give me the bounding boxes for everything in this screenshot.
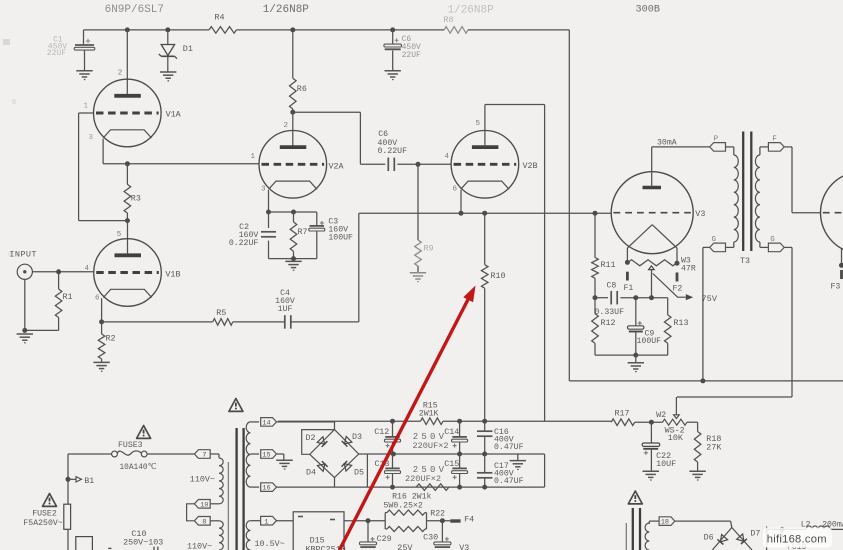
- svg-text:5: 5: [117, 231, 122, 239]
- svg-text:16: 16: [262, 485, 270, 493]
- svg-text:1: 1: [84, 103, 89, 111]
- svg-text:3: 3: [261, 186, 266, 194]
- svg-text:F1: F1: [624, 284, 634, 293]
- svg-text:15: 15: [262, 452, 270, 460]
- svg-text:0.22UF: 0.22UF: [378, 147, 408, 156]
- svg-text:6: 6: [453, 186, 458, 194]
- svg-text:2W1K: 2W1K: [419, 410, 439, 419]
- svg-text:hifi168.com: hifi168.com: [767, 534, 827, 546]
- svg-text:25V: 25V: [397, 543, 412, 550]
- svg-text:F4: F4: [464, 515, 474, 525]
- svg-text:C6: C6: [378, 130, 388, 139]
- svg-text:220UF×2: 220UF×2: [412, 441, 448, 451]
- svg-text:R10: R10: [491, 271, 506, 281]
- svg-text:6N9P/6SL7: 6N9P/6SL7: [105, 4, 164, 16]
- svg-text:1UF: 1UF: [278, 305, 293, 314]
- svg-text:0.47UF: 0.47UF: [494, 443, 524, 452]
- svg-text:1/26N8P: 1/26N8P: [448, 4, 495, 16]
- svg-text:G: G: [770, 236, 775, 244]
- svg-text:18: 18: [661, 519, 669, 527]
- svg-text:B1: B1: [84, 477, 94, 486]
- svg-text:R11: R11: [601, 260, 616, 270]
- svg-text:V1B: V1B: [165, 269, 180, 279]
- svg-text:INPUT: INPUT: [9, 250, 37, 260]
- svg-text:2: 2: [118, 70, 123, 78]
- svg-text:R22: R22: [430, 509, 445, 518]
- svg-text:22UF: 22UF: [402, 51, 421, 60]
- svg-text:R4: R4: [215, 13, 225, 23]
- svg-text:250V~103: 250V~103: [123, 537, 163, 547]
- svg-text:R6: R6: [297, 84, 307, 94]
- svg-text:10A140℃: 10A140℃: [120, 463, 157, 472]
- svg-text:F3: F3: [831, 283, 841, 292]
- svg-text:R9: R9: [424, 244, 434, 254]
- svg-text:C12: C12: [374, 427, 389, 437]
- svg-text:V2A: V2A: [329, 162, 345, 172]
- svg-text:100UF: 100UF: [637, 337, 662, 346]
- svg-text:W2: W2: [656, 410, 666, 420]
- svg-text:1/26N8P: 1/26N8P: [263, 4, 310, 16]
- svg-text:27K: 27K: [706, 443, 722, 453]
- svg-text:R1: R1: [63, 292, 73, 302]
- svg-text:C30: C30: [423, 533, 438, 543]
- svg-text:10K: 10K: [668, 433, 684, 443]
- svg-text:R17: R17: [615, 408, 630, 418]
- svg-text:5W0.25×2: 5W0.25×2: [384, 501, 423, 510]
- svg-text:4: 4: [445, 153, 450, 161]
- svg-text:F5A250V~: F5A250V~: [23, 519, 62, 528]
- svg-text:D6: D6: [704, 532, 714, 542]
- svg-text:110V~: 110V~: [187, 541, 212, 550]
- svg-text:7: 7: [202, 452, 206, 460]
- svg-text:10: 10: [200, 501, 208, 509]
- svg-text:0.33UF: 0.33UF: [595, 308, 625, 317]
- svg-text:V1A: V1A: [166, 110, 182, 120]
- svg-text:75V: 75V: [702, 294, 718, 304]
- svg-text:0.22UF: 0.22UF: [229, 239, 259, 248]
- svg-text:22UF: 22UF: [47, 49, 66, 58]
- svg-text:14: 14: [262, 420, 270, 428]
- svg-text:V3: V3: [695, 209, 705, 219]
- svg-text:C8: C8: [607, 282, 617, 291]
- svg-text:R7: R7: [298, 227, 308, 237]
- svg-text:R16 2W1k: R16 2W1k: [392, 492, 431, 502]
- svg-text:8: 8: [202, 518, 206, 526]
- svg-text:D4: D4: [306, 467, 316, 477]
- svg-text:FUSE2: FUSE2: [32, 509, 57, 518]
- svg-text:3: 3: [89, 134, 94, 142]
- svg-text:FUSE3: FUSE3: [118, 441, 143, 450]
- svg-text:220UF×2: 220UF×2: [405, 474, 441, 484]
- svg-text:G: G: [712, 236, 717, 244]
- svg-text:110V~: 110V~: [190, 475, 215, 485]
- svg-text:0.47UF: 0.47UF: [494, 477, 524, 486]
- svg-text:D5: D5: [354, 467, 364, 477]
- svg-text:R8: R8: [444, 15, 454, 25]
- svg-text:10UF: 10UF: [656, 459, 676, 469]
- svg-text:R5: R5: [216, 308, 226, 318]
- svg-text:F: F: [772, 136, 777, 144]
- svg-text:1: 1: [251, 153, 256, 161]
- svg-text:47R: 47R: [681, 265, 696, 274]
- svg-text:100UF: 100UF: [328, 233, 353, 242]
- svg-text:C29: C29: [377, 534, 392, 544]
- svg-text:10.5V~: 10.5V~: [255, 539, 285, 549]
- svg-text:D2: D2: [306, 433, 316, 443]
- svg-text:V3: V3: [459, 543, 469, 550]
- svg-text:1: 1: [264, 518, 268, 526]
- svg-text:R3: R3: [131, 194, 141, 204]
- svg-text:D3: D3: [352, 432, 362, 442]
- svg-text:R13: R13: [673, 318, 688, 328]
- svg-text:R2: R2: [106, 334, 116, 344]
- svg-text:V2B: V2B: [523, 161, 538, 171]
- svg-text:D1: D1: [183, 44, 193, 54]
- svg-text:5: 5: [476, 120, 481, 128]
- svg-text:T3: T3: [740, 256, 750, 266]
- svg-text:30mA: 30mA: [657, 138, 677, 147]
- svg-text:R12: R12: [601, 318, 616, 328]
- svg-text:300B: 300B: [636, 4, 660, 15]
- svg-text:F2: F2: [673, 284, 683, 293]
- svg-text:6: 6: [95, 295, 100, 303]
- svg-text:P: P: [714, 136, 719, 144]
- svg-text:2: 2: [284, 122, 289, 130]
- svg-text:D7: D7: [750, 529, 760, 539]
